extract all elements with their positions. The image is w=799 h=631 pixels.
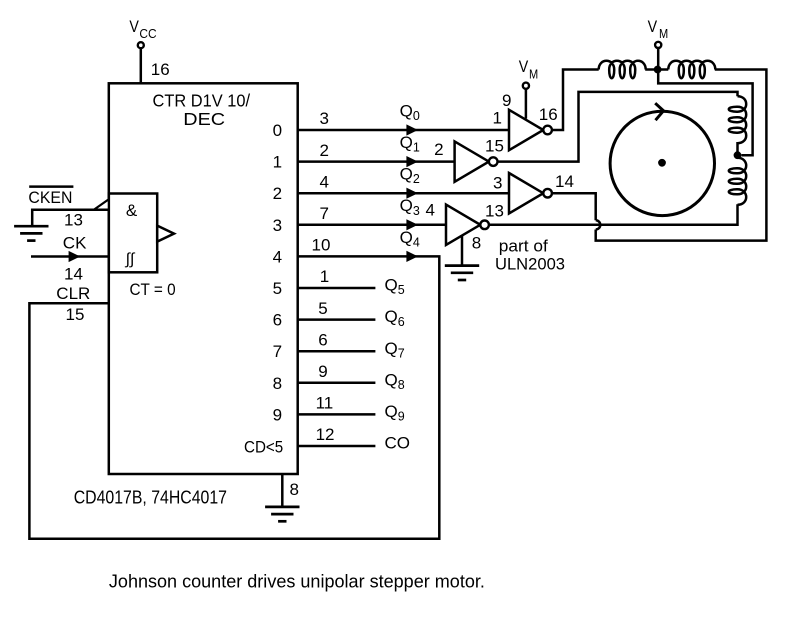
winding C (stepper phase 3) bbox=[729, 96, 746, 143]
wire Q9 bbox=[298, 413, 376, 416]
wire CKEN bbox=[32, 210, 109, 226]
wire hop over (crossing) bbox=[596, 220, 601, 229]
svg-text:13: 13 bbox=[485, 202, 504, 221]
power terminal VCC bbox=[138, 42, 144, 48]
svg-text:14: 14 bbox=[555, 172, 574, 191]
svg-text:3: 3 bbox=[320, 109, 329, 128]
ground (counter pin 8) bbox=[265, 507, 299, 521]
svg-text:CD<5: CD<5 bbox=[244, 438, 283, 457]
edge polarity triangle at CKEN pin bbox=[94, 199, 109, 209]
wire VM to center tap and to right windings tap bbox=[658, 49, 752, 156]
winding A (stepper phase 1) bbox=[599, 61, 646, 78]
svg-text:M: M bbox=[659, 27, 668, 41]
wire Q2 bbox=[298, 192, 509, 195]
svg-text:V: V bbox=[519, 57, 529, 76]
svg-text:Johnson counter drives unipola: Johnson counter drives unipolar stepper … bbox=[109, 571, 485, 592]
winding D (stepper phase 4) bbox=[729, 158, 746, 205]
wire inverter to ground bbox=[461, 236, 464, 265]
arrowhead Q3 bbox=[406, 219, 418, 230]
wire Q7 bbox=[298, 350, 376, 353]
svg-text:9: 9 bbox=[318, 362, 327, 381]
svg-text:11: 11 bbox=[316, 394, 334, 413]
svg-text:CO: CO bbox=[385, 434, 411, 453]
svg-text:8: 8 bbox=[472, 234, 481, 253]
control block box bbox=[109, 194, 157, 273]
arrowhead Q4 feedback bbox=[406, 251, 418, 262]
svg-text:ULN2003: ULN2003 bbox=[495, 254, 565, 273]
wire to bottom bus bbox=[596, 70, 767, 241]
svg-text:5: 5 bbox=[273, 279, 282, 298]
svg-text:V: V bbox=[129, 17, 139, 36]
svg-text:15: 15 bbox=[485, 137, 504, 156]
wire winding A to center tap bbox=[645, 68, 668, 71]
svg-text:CTR D1V 10/: CTR D1V 10/ bbox=[153, 90, 251, 110]
svg-text:1: 1 bbox=[273, 153, 282, 172]
svg-text:CKEN: CKEN bbox=[28, 188, 72, 207]
inverter U2b ULN2003 bbox=[455, 141, 489, 181]
svg-text:1: 1 bbox=[493, 109, 502, 128]
svg-text:16: 16 bbox=[539, 105, 558, 124]
power terminal VM (ULN pin 9) bbox=[523, 83, 529, 89]
motor rotor circle bbox=[610, 111, 714, 215]
svg-text:13: 13 bbox=[64, 210, 83, 229]
wire counter pin 8 to ground bbox=[281, 474, 284, 506]
svg-text:16: 16 bbox=[151, 60, 170, 79]
svg-text:4: 4 bbox=[320, 172, 329, 191]
power terminal VM (motor center tap) bbox=[655, 42, 661, 48]
svg-text:14: 14 bbox=[64, 264, 83, 283]
svg-text:9: 9 bbox=[273, 405, 282, 424]
inversion bubble U2b bbox=[489, 157, 498, 166]
svg-text:5: 5 bbox=[318, 299, 327, 318]
winding B (stepper phase 2) bbox=[668, 61, 715, 78]
inversion bubble U2a bbox=[543, 126, 552, 135]
svg-text:12: 12 bbox=[316, 425, 335, 444]
inverter U2d ULN2003 bbox=[446, 205, 480, 245]
svg-text:1: 1 bbox=[320, 267, 329, 286]
svg-text:3: 3 bbox=[493, 173, 502, 192]
svg-text:8: 8 bbox=[273, 374, 282, 393]
inversion bubble U2c bbox=[543, 189, 552, 198]
svg-text:2: 2 bbox=[434, 140, 443, 159]
wire winding C to tap bbox=[736, 142, 739, 155]
inversion bubble U2d bbox=[480, 221, 489, 230]
svg-text:CT = 0: CT = 0 bbox=[130, 280, 176, 299]
svg-text:8: 8 bbox=[290, 480, 299, 499]
inverter U2c ULN2003 bbox=[509, 173, 543, 213]
svg-text:3: 3 bbox=[273, 216, 282, 235]
dynamic-input triangle on control block bbox=[157, 226, 174, 242]
rotation arrow bbox=[655, 103, 663, 120]
svg-text:2: 2 bbox=[273, 184, 282, 203]
wire VM to pin 9 bbox=[525, 89, 528, 119]
svg-text:M: M bbox=[529, 68, 538, 82]
svg-text:0: 0 bbox=[273, 121, 282, 140]
svg-text:4: 4 bbox=[426, 201, 435, 220]
wire inverter1 output to winding A bbox=[552, 70, 599, 131]
svg-text:2: 2 bbox=[320, 141, 329, 160]
svg-text:6: 6 bbox=[318, 330, 327, 349]
arrowhead Q1 bbox=[406, 156, 418, 167]
wire CO bbox=[298, 445, 376, 448]
wire Q5 bbox=[298, 287, 376, 290]
junction center tap bbox=[654, 66, 662, 74]
wire CK bbox=[31, 255, 109, 258]
svg-text:9: 9 bbox=[502, 91, 511, 110]
arrowhead Q2 bbox=[406, 188, 418, 199]
wire inverter4 output to winding D bbox=[489, 204, 738, 225]
svg-text:&: & bbox=[126, 201, 138, 220]
wire Q0 bbox=[298, 129, 509, 132]
svg-text:part of: part of bbox=[499, 236, 548, 255]
arrowhead CK bbox=[69, 251, 81, 262]
motor shaft dot bbox=[658, 159, 666, 167]
svg-text:10: 10 bbox=[312, 236, 331, 255]
wire Q6 bbox=[298, 318, 376, 321]
svg-text:6: 6 bbox=[273, 311, 282, 330]
ground (ULN pin 8) bbox=[445, 266, 479, 280]
svg-text:15: 15 bbox=[66, 305, 85, 324]
wire Q8 bbox=[298, 382, 376, 385]
svg-text:CLR: CLR bbox=[56, 284, 90, 303]
arrowhead Q0 bbox=[406, 124, 418, 135]
svg-text:4: 4 bbox=[273, 247, 282, 266]
svg-text:DEC: DEC bbox=[183, 109, 225, 129]
counter U1 CD4017B outline bbox=[109, 83, 298, 474]
svg-text:V: V bbox=[648, 17, 658, 36]
svg-text:7: 7 bbox=[273, 342, 282, 361]
wire inverter3 output down bbox=[552, 193, 596, 220]
svg-text:∫∫: ∫∫ bbox=[125, 251, 136, 268]
svg-text:7: 7 bbox=[320, 204, 329, 223]
wire Q3 bbox=[298, 224, 446, 227]
junction windings C/D tap bbox=[734, 151, 742, 159]
svg-text:CC: CC bbox=[139, 26, 156, 41]
wire VCC to pin 16 bbox=[140, 49, 143, 84]
ground (CKEN) bbox=[14, 226, 48, 240]
wire inverter2 output to winding C bbox=[498, 92, 738, 162]
wire Q1 bbox=[298, 160, 455, 163]
CKEN overline bar bbox=[29, 185, 73, 188]
wire CLR feedback loop from Q4 bbox=[29, 256, 439, 538]
inverter U2a ULN2003 bbox=[509, 110, 543, 150]
svg-text:CD4017B, 74HC4017: CD4017B, 74HC4017 bbox=[74, 488, 227, 508]
svg-text:CK: CK bbox=[63, 233, 87, 252]
